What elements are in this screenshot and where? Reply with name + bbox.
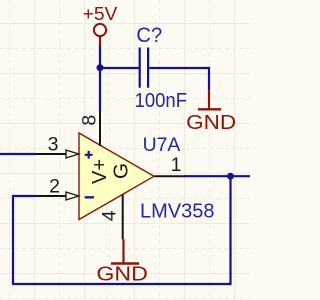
power port GND right — [186, 89, 236, 134]
pin 4 (GND supply) — [99, 194, 123, 239]
wire +5V vertical — [99, 46, 101, 112]
svg-text:100nF: 100nF — [135, 90, 187, 112]
svg-text:LMV358: LMV358 — [140, 200, 215, 223]
pin 2 (inverting input) — [35, 175, 79, 200]
background + grid (decorative) — [0, 0, 250, 300]
svg-text:C?: C? — [136, 24, 162, 47]
svg-text:2: 2 — [49, 175, 60, 197]
junction output — [227, 173, 234, 180]
svg-text:4: 4 — [99, 210, 121, 221]
plus mark (pin 3 name) — [85, 151, 93, 159]
wire junction to capacitor — [100, 67, 139, 69]
svg-text:V+: V+ — [89, 159, 111, 184]
pin 1 (output) — [155, 154, 186, 176]
svg-text:3: 3 — [48, 134, 59, 156]
svg-text:+5V: +5V — [83, 3, 118, 24]
svg-text:G: G — [111, 163, 133, 179]
junction — [97, 64, 104, 71]
pin 3 (non-inverting input) — [35, 134, 79, 159]
pin 8 (V+ supply) — [79, 111, 101, 146]
op-amp U7A triangle — [79, 133, 154, 220]
svg-text:8: 8 — [79, 115, 101, 126]
wire output — [184, 175, 250, 177]
power port +5V — [83, 3, 118, 46]
svg-text:1: 1 — [171, 154, 182, 176]
wire input pin 3 — [0, 153, 35, 155]
minus mark (pin 2 name) — [85, 196, 94, 198]
wire feedback (pin 2 to output) — [13, 176, 231, 284]
svg-text:GND: GND — [96, 263, 148, 285]
svg-text:U7A: U7A — [143, 134, 181, 156]
svg-text:GND: GND — [186, 112, 236, 134]
capacitor C? — [140, 48, 148, 88]
wire capacitor to GND corner — [149, 68, 209, 91]
power port GND bottom — [96, 239, 148, 285]
